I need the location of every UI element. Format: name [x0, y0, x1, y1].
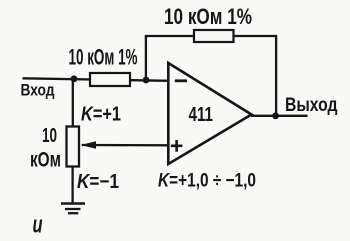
potentiometer R3 10 kOhm body [67, 127, 80, 167]
figure sublabel i [33, 212, 43, 239]
node A junction dot [71, 75, 78, 82]
value label potentiometer 10 [42, 125, 57, 147]
svg-text:кОм: кОм [30, 149, 61, 172]
svg-text:10 кОм 1%: 10 кОм 1% [69, 45, 138, 70]
svg-text:Выход: Выход [285, 95, 338, 116]
resistor R1 10 kOhm 1% (input) [90, 73, 130, 86]
label K=+1 [81, 104, 121, 126]
wire input horizontal [23, 78, 169, 81]
label Vykhod (output) [285, 95, 338, 116]
node B junction dot [143, 77, 150, 84]
svg-text:10: 10 [42, 125, 57, 147]
wire from node A down to potentiometer [72, 79, 74, 128]
op-amp inverting input minus sign [175, 79, 187, 82]
svg-text:и: и [33, 212, 43, 239]
value label potentiometer kOhm [30, 149, 61, 172]
svg-text:K=+1: K=+1 [81, 104, 121, 126]
wire feedback right vertical [275, 36, 277, 116]
resistor R2 10 kOhm 1% (feedback) [194, 30, 234, 42]
svg-text:K=+1,0 ÷ −1,0: K=+1,0 ÷ −1,0 [158, 171, 256, 192]
wire feedback top horizontal [145, 35, 277, 37]
potentiometer wiper arrowhead [81, 141, 97, 149]
wire output horizontal [251, 115, 308, 117]
svg-text:411: 411 [189, 104, 214, 126]
value label input resistor 10 kOhm 1% [69, 45, 138, 70]
label K=+1,0 to -1,0 [158, 171, 256, 192]
svg-text:10 кОм 1%: 10 кОм 1% [164, 4, 252, 29]
label Vkhod (input) [21, 82, 55, 100]
op-amp type number 411 [189, 104, 214, 126]
svg-text:Вход: Вход [21, 82, 55, 100]
ground [61, 204, 85, 214]
wire feedback left vertical [145, 36, 147, 80]
svg-text:K=−1: K=−1 [77, 171, 119, 193]
wire wiper to noninverting input [82, 144, 168, 147]
label K=-1 [77, 171, 119, 193]
node C output junction dot [272, 112, 279, 119]
wire potentiometer to ground [71, 166, 73, 204]
op-amp U1 triangle [168, 63, 251, 164]
value label feedback resistor 10 kOhm 1% [164, 4, 252, 29]
op-amp noninverting input plus sign [171, 140, 183, 152]
